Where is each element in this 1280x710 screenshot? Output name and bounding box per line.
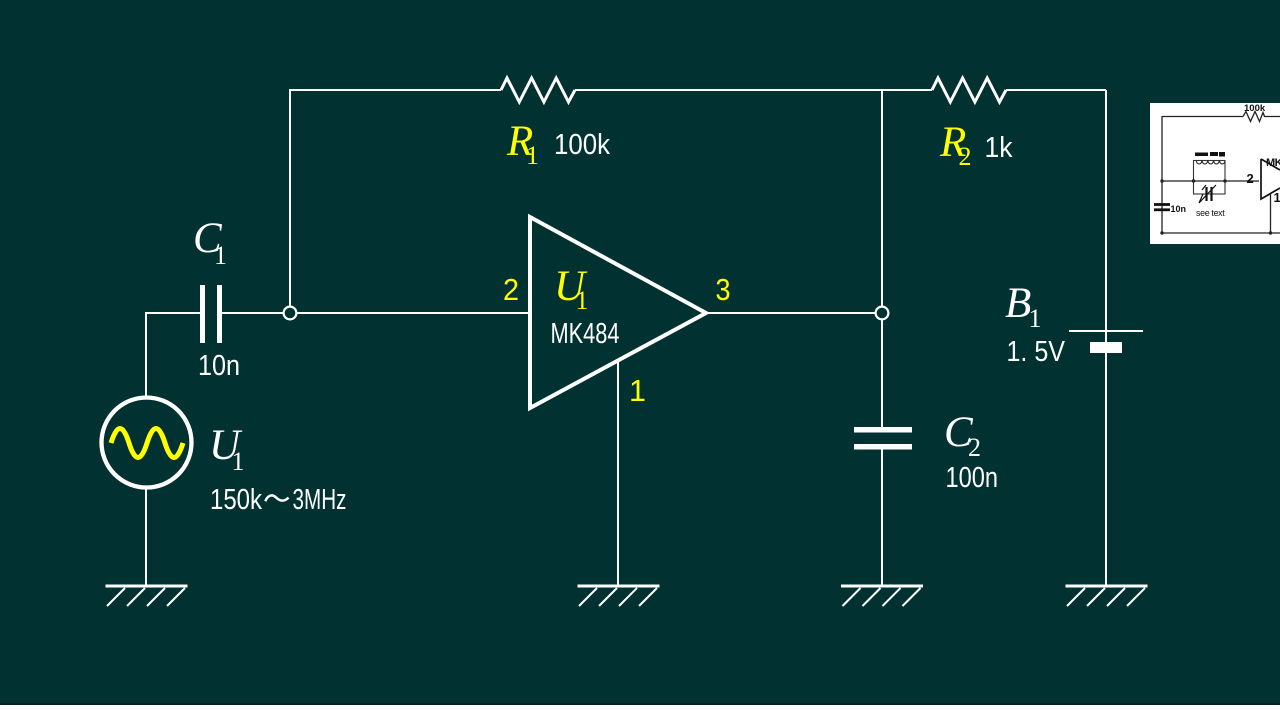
- resistor R1 designator: [506, 118, 539, 170]
- inset: original scan thumbnail background: [1150, 103, 1280, 244]
- battery B1 designator: [1005, 280, 1042, 333]
- svg-text:10n: 10n: [1171, 204, 1187, 214]
- source sine wave: [111, 429, 183, 458]
- wire: output node vertical to top rail: [881, 90, 883, 306]
- svg-text:1: 1: [576, 286, 589, 315]
- svg-text:2: 2: [1247, 171, 1254, 186]
- wire: C1 to input node: [222, 312, 283, 314]
- svg-text:1k: 1k: [985, 132, 1013, 164]
- svg-text:1: 1: [1274, 190, 1280, 205]
- svg-text:2: 2: [959, 142, 972, 171]
- wire: pin 1 to ground: [617, 361, 619, 585]
- svg-text:MK4: MK4: [1266, 157, 1280, 169]
- svg-text:150k: 150k: [210, 484, 262, 516]
- svg-text:100k: 100k: [554, 129, 610, 161]
- ground: pin 1 branch: [578, 586, 660, 606]
- source U1 designator: [209, 422, 245, 476]
- inset LC tank box: [1194, 161, 1226, 195]
- wire: top rail middle segment: [575, 89, 932, 91]
- svg-text:1: 1: [629, 373, 646, 408]
- bottom white strip: [0, 705, 1280, 710]
- value label tilde: [265, 495, 288, 501]
- battery B1 long plate: [1069, 330, 1143, 332]
- svg-text:10n: 10n: [198, 350, 240, 382]
- wire: feedback left vertical + top rail left segment: [290, 90, 501, 306]
- svg-text:1: 1: [1029, 304, 1042, 333]
- capacitor C2 designator: [944, 409, 981, 462]
- op-amp U1 triangle: [530, 217, 706, 408]
- svg-text:100k: 100k: [1244, 103, 1266, 114]
- svg-text:3MHz: 3MHz: [293, 484, 347, 516]
- source U1 circle: [102, 398, 192, 488]
- inset wire: left vertical: [1161, 116, 1163, 233]
- inset variable capacitor plates: [1207, 187, 1212, 201]
- wire: battery branch vertical: [1105, 90, 1107, 585]
- wire: top rail right segment: [1006, 89, 1106, 91]
- resistor R1 zigzag: [501, 78, 575, 102]
- inset triangle MK484: [1261, 159, 1280, 199]
- svg-text:1: 1: [526, 141, 539, 170]
- bottom window edge line: [0, 703, 1280, 705]
- wire: C2 to ground: [881, 450, 883, 586]
- ground: C2 branch: [841, 586, 923, 606]
- inset coil bumps: [1197, 161, 1225, 164]
- svg-text:3: 3: [716, 272, 731, 307]
- battery B1 short thick plate: [1090, 342, 1122, 353]
- inset wire: bottom rail: [1162, 232, 1280, 234]
- svg-text:MK484: MK484: [551, 318, 620, 350]
- inset text labels: [1171, 103, 1280, 218]
- svg-text:1: 1: [214, 241, 227, 270]
- inset wire: top rail: [1162, 116, 1243, 118]
- resistor R2 zigzag: [932, 78, 1006, 102]
- node: input junction (open circle): [284, 307, 297, 320]
- capacitor C1 plates: [203, 285, 220, 343]
- inset label smudge coil text: [1195, 152, 1225, 157]
- svg-text:1. 5V: 1. 5V: [1007, 336, 1066, 368]
- capacitor C1 designator: [193, 215, 227, 270]
- inset capacitor 10n plates: [1154, 205, 1170, 210]
- wire: op-amp output to node: [708, 312, 875, 314]
- ground: source branch: [106, 586, 188, 606]
- resistor R2 designator: [939, 119, 972, 171]
- svg-text:see text: see text: [1196, 208, 1225, 218]
- inset wire: pin1 down: [1270, 193, 1272, 233]
- svg-text:1: 1: [232, 447, 245, 476]
- svg-text:100n: 100n: [946, 462, 999, 494]
- wire: source to C1: [146, 313, 200, 397]
- svg-text:B: B: [1005, 280, 1031, 327]
- ground: battery branch: [1066, 586, 1148, 606]
- inset scan drawing: [1162, 112, 1280, 234]
- svg-text:2: 2: [968, 433, 981, 462]
- inset junction dots: [1160, 179, 1272, 234]
- wire: node down to C2: [881, 320, 883, 427]
- inset resistor 100k zigzag: [1243, 112, 1280, 122]
- wire: inverting input node to op-amp pin 2: [297, 312, 528, 314]
- node: output junction (open circle): [876, 307, 889, 320]
- inset wire: mid horizontal: [1162, 180, 1259, 182]
- capacitor C2 plates: [854, 430, 912, 447]
- svg-text:2: 2: [503, 272, 519, 307]
- wire: source to ground: [145, 487, 147, 585]
- op-amp U1 designator: [554, 263, 589, 315]
- inset variable capacitor arrow: [1199, 185, 1216, 203]
